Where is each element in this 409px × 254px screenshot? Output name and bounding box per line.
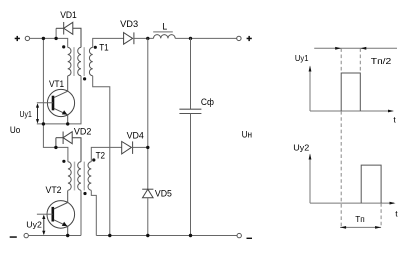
VT1 collector — [54, 76, 68, 98]
wire T2 demag bottom to bottom rail — [80, 190, 82, 235]
wire VD3 node down to VD4 node — [147, 38, 149, 189]
wire capacitor lower — [190, 114, 192, 236]
svg-text:Tп: Tп — [355, 214, 365, 224]
transformer T2 secondary winding — [88, 162, 91, 190]
svg-text:Uу2: Uу2 — [26, 219, 42, 229]
svg-text:VT1: VT1 — [49, 79, 64, 89]
wire T2 secondary bottom — [91, 190, 96, 235]
inductor L — [154, 35, 176, 39]
terminal - output — [237, 233, 241, 237]
VT1 base bar — [52, 96, 55, 111]
transformer T1 primary winding — [68, 47, 71, 75]
svg-text:T2: T2 — [96, 151, 106, 161]
wire bottom rail right segment — [96, 235, 237, 237]
node junction T1 secondary return — [108, 234, 111, 237]
node junction +rail/VD1 — [54, 37, 57, 40]
wire VD1 stub — [55, 28, 57, 38]
svg-text:VT2: VT2 — [46, 185, 62, 195]
wire capacitor upper — [190, 38, 192, 109]
VT2 emitter arrowhead — [62, 222, 68, 226]
T1 primary polarity dot — [62, 45, 65, 48]
transistor VT1 — [47, 89, 74, 116]
node junction VD5 anode — [146, 234, 149, 237]
wire VD3 to L — [134, 37, 154, 39]
T2 secondary polarity dot — [92, 158, 95, 161]
diode VD2 — [56, 132, 81, 162]
node junction capacitor — [189, 234, 192, 237]
dashed line pulse2 end — [380, 203, 382, 227]
VT2 base bar — [51, 207, 54, 222]
dimension line Tp — [340, 226, 381, 229]
terminal + output — [237, 36, 241, 40]
T1 demag polarity dot — [83, 77, 86, 80]
svg-text:VD1: VD1 — [60, 10, 77, 20]
wire bottom rail left segment — [28, 235, 81, 237]
axis X1 — [310, 110, 393, 112]
transformer T2 primary winding — [68, 162, 71, 190]
T1 core line right — [83, 47, 85, 76]
svg-text:Uо: Uо — [10, 125, 20, 135]
svg-text:VD3: VD3 — [120, 19, 138, 29]
node junction VD4/VD5 line — [146, 146, 149, 149]
wire + rail top — [30, 38, 68, 47]
node junction rail/emitter line — [42, 122, 45, 125]
plus sign output right — [247, 36, 252, 41]
VT2 base lead — [37, 213, 53, 215]
wire T1 secondary bottom down right side — [93, 76, 110, 236]
dashed line pulse start long — [340, 48, 342, 227]
VT2 emitter — [54, 220, 68, 236]
axis X2 — [310, 202, 394, 204]
wire L to + output — [175, 37, 237, 39]
svg-text:VD5: VD5 — [155, 188, 172, 198]
wire VT1 emitter line — [37, 76, 81, 124]
diode VD1 — [56, 22, 81, 47]
diode VD5 — [142, 189, 153, 198]
wire VD5 to bottom rail — [147, 198, 149, 236]
node junction +rail/left rail — [42, 37, 45, 40]
svg-text:Tп/2: Tп/2 — [371, 56, 392, 66]
node junction VT2 emitter — [66, 234, 69, 237]
wire T2 secondary top to VD4 — [91, 147, 121, 161]
plus sign input left — [15, 36, 20, 41]
transistor VT2 — [47, 201, 75, 229]
svg-text:VD4: VD4 — [127, 131, 144, 141]
T1 secondary polarity dot — [94, 46, 97, 49]
minus sign input left — [10, 236, 17, 238]
VT1 emitter arrowhead — [62, 110, 68, 114]
control source arrow Uy1 — [36, 103, 39, 123]
T2 core line right — [83, 162, 85, 191]
capacitor Cf — [179, 109, 201, 113]
T2 demag polarity dot — [83, 192, 86, 195]
pulse Uy1 — [341, 73, 360, 111]
minus sign output right — [247, 238, 253, 239]
svg-text:Uу2: Uу2 — [293, 143, 309, 153]
axis Y2 — [309, 155, 311, 204]
transformer T1 demag winding — [78, 47, 81, 75]
VT1 emitter — [54, 108, 68, 124]
T1 core line left — [73, 47, 75, 76]
wire T1 secondary top to VD3 — [93, 38, 124, 47]
diode VD4 — [122, 141, 133, 154]
node junction emitter — [66, 122, 69, 125]
dashed line pulse end short — [359, 48, 361, 73]
wire left rail down — [43, 38, 68, 161]
dimension line Tp/2 — [314, 47, 397, 50]
transformer T2 demag winding — [78, 162, 81, 190]
svg-text:T1: T1 — [99, 42, 109, 52]
VT1 base lead — [37, 102, 53, 104]
T2 core line left — [74, 162, 76, 191]
diode VD3 — [124, 32, 134, 44]
axis Y1 — [309, 67, 311, 112]
node junction L/C — [189, 37, 192, 40]
svg-text:VD2: VD2 — [74, 126, 92, 136]
T2 primary polarity dot — [62, 160, 65, 163]
L core line — [153, 31, 173, 33]
svg-text:Uу1: Uу1 — [295, 53, 309, 63]
node junction VD3/VD5 — [146, 37, 149, 40]
svg-text:L: L — [162, 21, 167, 31]
pulse Uy2 — [361, 165, 381, 203]
node junction VD2 stub — [54, 146, 57, 149]
svg-text:Uн: Uн — [242, 130, 253, 140]
terminal + input — [25, 36, 29, 40]
wire VD4 to node — [133, 146, 148, 148]
transformer T1 secondary winding — [89, 47, 92, 75]
svg-text:Сф: Сф — [201, 97, 215, 107]
control source arrow Uy2 — [42, 215, 45, 236]
terminal - input — [24, 233, 28, 237]
VT2 collector — [54, 190, 68, 209]
svg-text:Uу1: Uу1 — [20, 109, 33, 119]
